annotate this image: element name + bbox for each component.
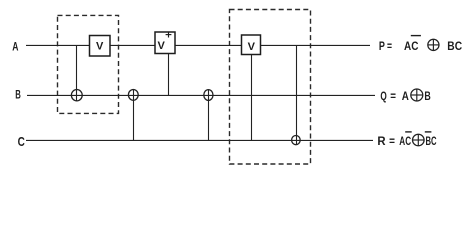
svg-text:A: A — [12, 41, 18, 53]
svg-text:BC: BC — [447, 41, 462, 53]
svg-text:V: V — [96, 41, 104, 53]
svg-text:V: V — [158, 40, 166, 52]
svg-text:BC: BC — [426, 136, 437, 148]
svg-text:B: B — [15, 89, 21, 101]
svg-text:=: = — [390, 91, 396, 103]
svg-text:C: C — [18, 134, 26, 149]
svg-text:AC: AC — [404, 41, 418, 53]
svg-text:=: = — [387, 41, 392, 53]
svg-text:V: V — [248, 41, 256, 53]
svg-text:P: P — [379, 41, 385, 53]
svg-text:Q: Q — [380, 91, 386, 103]
svg-text:A: A — [402, 91, 409, 103]
svg-text:AC: AC — [399, 136, 411, 148]
svg-text:=: = — [389, 136, 395, 148]
svg-text:B: B — [424, 91, 430, 103]
svg-text:R: R — [377, 136, 386, 148]
